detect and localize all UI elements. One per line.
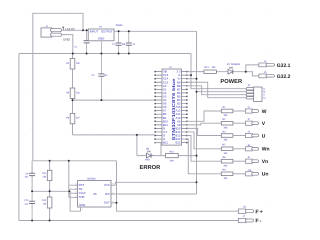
wire from chain-bottom junction down to error LED line bbox=[136, 135, 138, 156]
wire +5 rail down, branch to header pin 2 bbox=[197, 31, 247, 91]
wire MCU 5v pin to +5 rail bbox=[187, 78, 197, 80]
resistor R4 (divider top) bbox=[70, 59, 75, 70]
LED D7 green power indicator bbox=[228, 67, 233, 74]
node: junction +5 rail / C3 bbox=[128, 30, 130, 32]
node: junction bottom rail / R12 bbox=[49, 220, 51, 222]
capacitor C5 on regulator GND leg bbox=[98, 41, 104, 100]
svg-text:ERROR: ERROR bbox=[140, 165, 161, 171]
connector J2 (row V) bbox=[246, 121, 259, 125]
wire MCU pin to output row 1 bbox=[187, 111, 222, 121]
node: junction gnd rail / C5 leg bbox=[100, 53, 102, 55]
MCU pin end blobs bbox=[154, 71, 187, 144]
header J6 pin tabs bbox=[246, 87, 254, 90]
connector J4 (G32.1) bbox=[259, 63, 275, 67]
wire resistor to connector row U bbox=[233, 135, 246, 137]
svg-text:R11: R11 bbox=[42, 172, 47, 175]
resistor R5 (divider mid) bbox=[70, 88, 75, 99]
wire +5 vertical lower segment and DIS line bbox=[113, 156, 197, 194]
wire resistor to connector row Vn bbox=[233, 160, 246, 162]
wire resistor divider chain vertical x=72.5 bbox=[72, 54, 74, 135]
wire MCU pin to output row 5 bbox=[187, 136, 222, 162]
net flag +14.4V with up arrow bbox=[62, 27, 64, 31]
svg-text:G32.2: G32.2 bbox=[277, 74, 291, 80]
node: junction chain wire / error branch bbox=[136, 134, 138, 136]
svg-text:OUTPUT: OUTPUT bbox=[101, 30, 113, 34]
wire ground rail horizontal bbox=[19, 53, 191, 55]
connector J11 (F+) bbox=[238, 209, 253, 213]
svg-text:-: - bbox=[260, 219, 262, 225]
node: junction input rail / C1 bbox=[86, 29, 88, 31]
node: junction input rail / sense loop bbox=[82, 29, 84, 31]
wire +5V rail from U2 output bbox=[114, 30, 197, 32]
svg-text:POWER: POWER bbox=[220, 79, 242, 85]
resistor R10 390 (error) bbox=[166, 154, 179, 158]
node: junction sense line / R11 bbox=[49, 160, 51, 162]
resistor R6 (divider bottom) bbox=[70, 113, 75, 123]
svg-text:U: U bbox=[262, 133, 266, 139]
svg-text:Wn: Wn bbox=[262, 147, 270, 153]
wire +5 rail continues down to error resistor junction bbox=[196, 92, 198, 156]
capacitor C2 bbox=[116, 31, 122, 53]
node: junction 555 OUT / F+ line bbox=[116, 202, 118, 204]
wire vertical x=49.6 through R11 R12 bbox=[49, 161, 51, 221]
node: junction control line / 555 bus bbox=[68, 190, 70, 192]
wire MCU pin to output row 2 bbox=[187, 123, 222, 125]
node: junction +5 rail / error resistor bbox=[196, 155, 198, 157]
wire GND rail down to header pin 1 bbox=[191, 54, 246, 89]
node: junction control line / C9 C10 bbox=[31, 190, 33, 192]
node: junction gnd rail / C1 bbox=[86, 53, 88, 55]
node: junction gnd rail / divider chain bbox=[72, 53, 74, 55]
resistor R8 390 (row Vn) bbox=[221, 159, 233, 163]
svg-text:R13: R13 bbox=[205, 66, 210, 69]
resistor R1 390 (row W) bbox=[221, 109, 233, 113]
svg-text:GND: GND bbox=[79, 203, 85, 207]
node: junction sense line / 555 bus bbox=[68, 160, 70, 162]
wire R13 to LED D7 and POWER junction bbox=[216, 71, 245, 73]
svg-text:G32.1: G32.1 bbox=[277, 63, 291, 69]
wire MCU B8 to header pin 3 bbox=[187, 86, 247, 95]
resistor R7 390 (row Wn) bbox=[221, 147, 233, 151]
svg-text:THR: THR bbox=[79, 195, 85, 199]
svg-text:INPUT: INPUT bbox=[90, 30, 99, 34]
wire chain bottom to MCU left pin bbox=[73, 134, 156, 136]
node: junction +5 rail / header pin2 bbox=[196, 91, 198, 93]
555 pin stubs bbox=[74, 185, 117, 203]
wire 555 VCC to +5 vertical bbox=[115, 182, 196, 185]
regulator U2 78M05 body bbox=[88, 29, 114, 41]
node: junction control line / R11 R12 bbox=[49, 190, 51, 192]
node: junction gnd rail / C3 bbox=[128, 53, 130, 55]
timer U5 SE555N body bbox=[78, 181, 112, 208]
wire MCU pin to output row 4 bbox=[187, 132, 222, 149]
svg-text:GND: GND bbox=[63, 38, 71, 42]
connector J10 (row Un) bbox=[246, 172, 259, 176]
capacitor C1 (input) bbox=[84, 30, 90, 53]
wire MCU bottom pin to error LED line bbox=[155, 143, 161, 156]
svg-text:SE555N: SE555N bbox=[87, 178, 96, 181]
wire battery sense loop over top and down left side bbox=[33, 13, 83, 161]
wire 555 GND loop to control line bbox=[70, 191, 80, 211]
wire down x=116.5 and right to F+ connector bbox=[117, 161, 239, 211]
svg-text:Vn: Vn bbox=[262, 159, 268, 165]
svg-text:78M05: 78M05 bbox=[115, 24, 123, 27]
svg-text:R12: R12 bbox=[42, 199, 47, 202]
wire MCU pin to output row 6 bbox=[187, 139, 222, 174]
resistor R3 390 (row U) bbox=[221, 134, 233, 138]
svg-text:R10: R10 bbox=[170, 150, 175, 153]
node: junction bottom rail / C10 bbox=[31, 220, 33, 222]
svg-text:RED: RED bbox=[145, 158, 150, 161]
wire 555 OUT stub bbox=[111, 202, 117, 204]
MCU pin stubs left and right bbox=[155, 72, 187, 143]
wire long horizontal y=160.8 to F+ vertical bbox=[33, 160, 117, 162]
connector J7 (F-) bbox=[238, 218, 253, 222]
wire 555 left pins bus x=68.8 bbox=[69, 161, 74, 198]
node: junction gnd rail / MCU G pin bbox=[190, 74, 192, 76]
svg-text:G: G bbox=[263, 88, 265, 91]
resistor R13 390 bbox=[204, 70, 217, 73]
wire error LED line horizontal bbox=[137, 155, 197, 157]
connector J3 (row U) bbox=[246, 133, 259, 137]
node: junction C5 leg / tap wire bbox=[100, 99, 102, 101]
resistor R12 (555 timing lower) bbox=[47, 197, 52, 208]
wire +14.4V rail from J1 to U2 input bbox=[62, 29, 88, 31]
wire MCU 3.3 pin to resistor R13 bbox=[187, 71, 204, 73]
connector J9 (row Vn) bbox=[246, 159, 259, 163]
node: junction POWER net bbox=[245, 71, 247, 73]
connector J1 (battery input) bbox=[41, 28, 62, 37]
wire resistor to connector row W bbox=[233, 110, 246, 112]
wire divider tap to MCU pin bbox=[73, 99, 156, 101]
resistor R2 390 (row V) bbox=[221, 121, 233, 125]
resistor R9 390 (row Un) bbox=[221, 172, 233, 176]
wire left ground rail vertical bbox=[18, 54, 20, 221]
capacitor C9 bbox=[29, 161, 35, 192]
svg-text:GND: GND bbox=[98, 37, 104, 41]
connector J5 (G32.2) bbox=[259, 74, 275, 78]
svg-text:D7 GREEN: D7 GREEN bbox=[227, 63, 240, 66]
wire to connector G32.2 bbox=[246, 72, 259, 76]
capacitor C10 bbox=[29, 191, 35, 220]
wire up to connector G32.1 bbox=[246, 65, 259, 72]
wire MCU B9 to header pin 4 bbox=[187, 82, 247, 97]
svg-text:U5: U5 bbox=[93, 192, 97, 196]
connector J1 (row W) bbox=[246, 109, 259, 113]
wire resistor to connector row Wn bbox=[233, 148, 246, 150]
svg-text:B12: B12 bbox=[163, 141, 168, 145]
wire bottom ground rail to F- connector bbox=[19, 220, 238, 222]
svg-text:VCC: VCC bbox=[104, 183, 110, 187]
header connector J6 body bbox=[254, 87, 262, 102]
capacitor C3 bbox=[126, 31, 132, 53]
svg-text:W: W bbox=[262, 109, 267, 115]
node: junction divider tap bbox=[72, 99, 74, 101]
wire J1 GND pin down to ground rail bbox=[62, 35, 73, 54]
connector J8 (row Wn) bbox=[246, 147, 259, 151]
svg-text:B12: B12 bbox=[175, 141, 180, 145]
wire resistor to connector row Un bbox=[233, 173, 246, 175]
node: junction +5 rail / C2 bbox=[118, 30, 120, 32]
wire resistor to connector row V bbox=[233, 122, 246, 124]
node: junction +5 rail / 555 VCC bbox=[196, 181, 198, 183]
resistor R11 (555 timing upper) bbox=[47, 170, 52, 180]
node: junction +5 rail / MCU 5v pin bbox=[196, 78, 198, 80]
wire MCU pin to output row 3 bbox=[187, 128, 222, 135]
node: junction gnd rail / C2 bbox=[118, 53, 120, 55]
svg-text:DIS: DIS bbox=[105, 192, 110, 196]
svg-text:C10: C10 bbox=[24, 199, 29, 202]
MCU U1 STM32F103C8T6 blue pill body bbox=[162, 69, 182, 145]
svg-text:Un: Un bbox=[262, 172, 269, 178]
wire 555 control line y=191.3 bbox=[32, 190, 69, 192]
LED D8 red error indicator bbox=[146, 151, 153, 158]
svg-text:STM32F103C8T6 blue: STM32F103C8T6 blue bbox=[171, 78, 176, 141]
wire MCU G pin to GND rail bbox=[187, 74, 191, 76]
svg-text:OUT: OUT bbox=[104, 201, 110, 205]
svg-text:+: + bbox=[260, 209, 263, 215]
